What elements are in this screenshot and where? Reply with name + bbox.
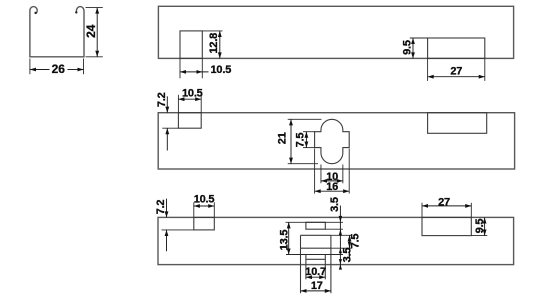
svg-text:27: 27: [438, 196, 450, 208]
svg-text:7.5: 7.5: [350, 234, 362, 249]
arrow down at band bottom: [339, 259, 342, 264]
view3 centre hole right side: [330, 235, 332, 293]
dimension 27 extension lines view3: [421, 203, 423, 218]
dimension 7.2 lines view2 (arrows outside): [166, 96, 168, 112]
arrow up at tab bottom: [339, 229, 342, 235]
dimension 10.7 line: [306, 276, 325, 278]
dimension 17 line: [301, 290, 331, 292]
dimension 24 line: [96, 8, 98, 57]
svg-text:13.5: 13.5: [279, 230, 291, 251]
svg-text:10.7: 10.7: [305, 266, 326, 278]
view3 left cutout: [194, 217, 215, 230]
dimension 16 line: [315, 190, 350, 192]
svg-text:7.5: 7.5: [295, 133, 307, 148]
svg-text:3.5: 3.5: [341, 248, 353, 263]
svg-text:26: 26: [52, 62, 66, 76]
view2 right cutout: [428, 113, 487, 134]
dimension 21 extension lines: [288, 118, 322, 120]
dimension 3.5 / 3.5 shared line: [339, 206, 341, 270]
view2 left cutout: [178, 113, 201, 129]
view3 centre hole left side: [300, 235, 302, 293]
dimension 7.2 extension line view2: [162, 127, 178, 129]
dimension 13.5 line: [288, 222, 290, 254]
svg-text:27: 27: [450, 66, 462, 78]
dimension 9.5 line view1: [412, 38, 414, 58]
view1 body outline: [158, 6, 513, 58]
dimension 7.2 extension line view3: [162, 229, 194, 231]
svg-text:3.5: 3.5: [329, 197, 341, 212]
view1 right cutout: [428, 38, 485, 58]
left curl end: [34, 12, 36, 14]
svg-text:10.5: 10.5: [182, 88, 203, 100]
dimension 10.5 extension lines view2: [177, 95, 179, 113]
right curl end: [75, 11, 77, 13]
view2 keyhole slot: [315, 119, 350, 163]
view3 inner pocket right side: [324, 255, 326, 280]
view3 inner pocket left side: [305, 255, 307, 280]
dimension 9.5 extension line view3: [471, 235, 487, 237]
view3 long extension line: [286, 254, 343, 256]
dimension 7.5 line view3: [349, 235, 351, 259]
dimension 9.5 line view3: [484, 217, 486, 235]
arrow down at fold for 7.5: [348, 242, 351, 248]
dimension 12.8 line: [219, 31, 221, 59]
view3 tab top extension line: [286, 221, 344, 223]
view3 body outline: [158, 217, 514, 264]
dimension 10 line: [321, 180, 343, 182]
dimension 24 extension lines: [86, 7, 103, 9]
view3 centre tab: [306, 222, 325, 229]
dimension 9.5 extension line view1: [410, 37, 428, 39]
dimension 27 line view3: [422, 205, 471, 207]
dimension 26 extension lines: [29, 59, 31, 75]
dimension 10.5 inner arrow view1: [197, 70, 203, 74]
view3 hole top extension to 7.5: [331, 234, 352, 236]
dimension 10.5 line view1: [180, 71, 209, 73]
view3 fold extension line: [331, 247, 352, 249]
dimension 7.2 lines view3 (arrows outside): [166, 199, 168, 218]
dimension 27 line view1: [428, 76, 485, 78]
view3 tab bottom extension line: [325, 228, 343, 230]
view3 inner fold line: [301, 247, 331, 249]
arrow down at tab top: [339, 216, 342, 222]
arrow up at fold line: [339, 248, 342, 253]
dimension 7.5 extension lines view2: [303, 131, 315, 133]
svg-text:9.5: 9.5: [402, 40, 414, 55]
svg-text:7.2: 7.2: [155, 200, 167, 215]
svg-text:16: 16: [326, 181, 338, 193]
channel cross-section profile: [30, 7, 84, 57]
dimension 10 extension lines: [320, 165, 322, 184]
dimension 21 line: [290, 119, 292, 163]
view3 right cutout: [422, 217, 471, 235]
svg-text:12.8: 12.8: [208, 33, 220, 54]
view2 body outline: [158, 113, 514, 169]
svg-text:10.5: 10.5: [211, 64, 232, 76]
svg-text:10.5: 10.5: [194, 194, 215, 206]
dimension 27 extension lines view1: [427, 58, 429, 81]
svg-text:24: 24: [84, 24, 98, 38]
arrow up below band bottom: [339, 265, 342, 270]
view3 inner pocket bottom edge: [306, 258, 325, 260]
dimension 10.5 extension lines view1: [179, 58, 181, 78]
dimension 10.5 line view2: [178, 98, 201, 100]
view3 centre hole top edge: [301, 234, 331, 236]
svg-text:17: 17: [311, 280, 323, 292]
dimension 26 line: [30, 69, 50, 71]
svg-text:7.2: 7.2: [156, 92, 168, 107]
dimension 10.5 extension lines view3: [193, 202, 195, 217]
dimension 12.8 extension line: [202, 30, 222, 32]
dimension 16 extension lines: [314, 149, 316, 194]
svg-text:9.5: 9.5: [474, 219, 486, 234]
svg-text:21: 21: [277, 132, 289, 144]
dimension 7.5 line view2: [305, 132, 307, 148]
dimension 10.5 line view3: [194, 205, 215, 207]
view1 left cutout: [180, 31, 202, 59]
